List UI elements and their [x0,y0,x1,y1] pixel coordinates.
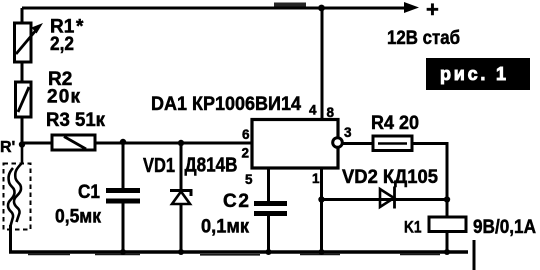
svg-text:С2: С2 [223,191,249,212]
wire relay bottom lead [446,231,449,252]
wire R2 to node A [21,117,24,146]
wire top bus [22,7,406,10]
svg-text:2: 2 [242,146,250,161]
junction dot VD2 cathode node [444,196,450,202]
svg-text:4: 4 [309,103,317,118]
wire C1 top lead [122,143,125,189]
wire pin 1 vertical [320,168,323,252]
svg-text:0,5мк: 0,5мк [55,207,101,228]
svg-text:R3 51к: R3 51к [46,110,105,131]
wire sensor lower lead [9,225,12,252]
wire C1 bottom lead [122,203,125,252]
figure label box ris.1 [426,58,530,90]
junction dot bus pin1 [319,249,325,255]
junction dot pin1 node [318,196,324,202]
resistor R2 [16,82,32,117]
wire pin 4/8 vertical [321,8,324,120]
svg-text:6: 6 [242,127,250,142]
svg-text:рис. 1: рис. 1 [440,64,506,84]
op-amp/timer U1 DA1 body [252,120,338,169]
svg-text:K1: K1 [404,218,422,237]
arrow head +12V output [404,2,419,13]
svg-text:9В/0,1А: 9В/0,1А [473,217,536,238]
junction dot bus C1 [120,249,126,255]
wire pin 3 to R4 [342,142,373,145]
wire mid horizontal node A to IC pin 2/6 [22,142,252,145]
svg-text:5: 5 [245,172,253,187]
relay K1 coil [429,217,466,232]
svg-text:R': R' [0,139,15,156]
sensor R' dashed box [4,164,31,230]
sensor electrode right [14,143,22,222]
svg-text:VD1: VD1 [143,155,175,177]
junction dot bus VD1 [178,249,184,255]
resistor R4 [373,136,412,151]
svg-text:1: 1 [312,171,320,186]
svg-text:C1: C1 [78,182,100,203]
zener diode VD1 [170,191,191,205]
scan smudge on top wire [274,3,306,8]
wire left column [21,8,24,23]
wire R1-R2 [21,62,24,82]
wire R4 to corner down [412,144,447,200]
wire VD1 bottom lead [180,203,183,252]
capacitor C1 [106,191,140,202]
wire C2 bottom lead [267,215,270,252]
resistor R1 [15,23,44,62]
svg-text:*: * [76,17,84,38]
node A junction dot [19,141,25,147]
junction dot bus C2 [266,249,272,255]
wire bottom bus rough edge [28,254,440,256]
svg-text:12В стаб: 12В стаб [387,28,460,49]
svg-text:+: + [426,0,439,22]
capacitor C2 [254,204,287,214]
right edge mark [473,240,476,270]
resistor R3 [52,135,95,150]
svg-text:0,1мк: 0,1мк [201,217,249,238]
junction dot top bus [318,5,325,12]
wire pin 5 lead [267,168,270,202]
sensor electrode left [8,168,15,226]
junction dot bus relay [444,249,450,255]
svg-text:20к: 20к [47,87,80,108]
wire mid right horizontal [322,198,448,201]
svg-text:VD2 КД105: VD2 КД105 [342,167,438,188]
svg-text:2,2: 2,2 [50,34,74,55]
svg-text:Д814В: Д814В [185,155,238,177]
junction dot VD1 top [178,140,184,146]
wire bottom bus [9,250,468,254]
diode VD2 [380,187,395,209]
wire VD1 top lead [180,143,183,190]
svg-text:8: 8 [327,105,335,120]
pin 3 inversion bubble [333,138,343,148]
svg-text:DA1 КР1006ВИ14: DA1 КР1006ВИ14 [151,94,301,115]
junction dot C1 top [120,139,126,145]
svg-text:3: 3 [344,125,352,140]
wire relay top lead [446,200,449,218]
svg-text:R4 20: R4 20 [371,113,419,134]
